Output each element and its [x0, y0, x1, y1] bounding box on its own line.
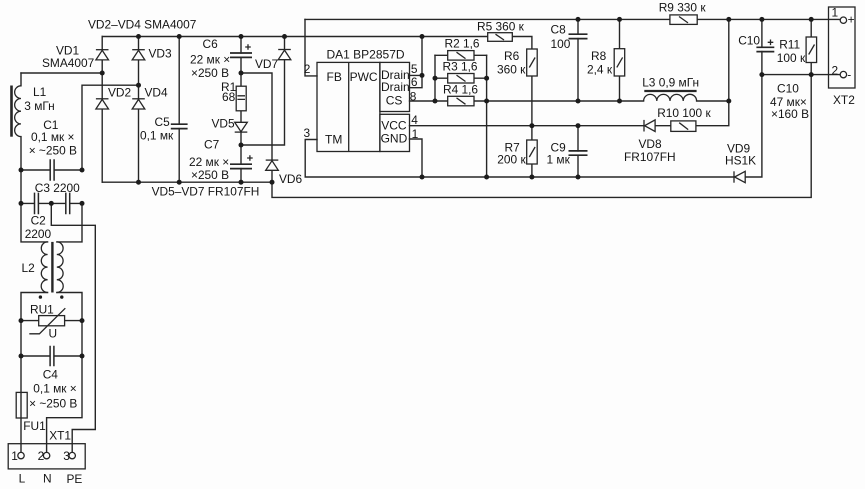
fuse FU1 — [16, 392, 27, 418]
resistor R11 (100k) — [806, 37, 817, 63]
svg-text:22 мк ×: 22 мк × — [190, 53, 230, 67]
svg-text:VD5–VD7 FR107FH: VD5–VD7 FR107FH — [152, 184, 260, 198]
svg-text:FU1: FU1 — [23, 419, 46, 433]
wire VD6 column from C6/R1 node — [241, 73, 272, 182]
wire PE path from C3/C2 midpoint to XT1 pin 3 — [51, 203, 95, 452]
inductor L3 (0.9 mH) with core — [644, 91, 697, 101]
node L2 phase dots — [39, 295, 42, 298]
resistor R4 (1.6) — [448, 96, 474, 106]
svg-text:FR107FH: FR107FH — [624, 150, 676, 164]
svg-text:C7: C7 — [204, 138, 220, 152]
svg-text:L1: L1 — [33, 85, 47, 99]
svg-text:N: N — [43, 472, 52, 486]
node VCC line junctions — [529, 123, 534, 128]
wire AC input to left leg from L1 top — [21, 72, 102, 74]
svg-text:SMA4007: SMA4007 — [42, 56, 95, 70]
svg-text:3 мГн: 3 мГн — [24, 99, 54, 113]
svg-text:× ~250 В: × ~250 В — [29, 144, 77, 158]
wire R7 leads — [531, 126, 533, 177]
svg-text:R8: R8 — [591, 49, 607, 63]
svg-text:GND: GND — [381, 131, 408, 145]
wire C7 leads — [240, 145, 242, 182]
svg-text:R10 100 к: R10 100 к — [657, 106, 711, 120]
resistor R7 (200k) — [527, 140, 538, 164]
svg-text:1: 1 — [11, 449, 18, 463]
svg-text:C5: C5 — [155, 115, 171, 129]
wire left column C1 to C3 line — [20, 170, 22, 203]
wire R11 column — [810, 19, 812, 74]
capacitor C4 (0.1u) plates — [50, 346, 54, 366]
wire C4 line — [21, 355, 82, 357]
svg-text:4: 4 — [411, 113, 418, 127]
svg-text:CS: CS — [386, 94, 403, 108]
svg-text:×250 В: ×250 В — [191, 66, 229, 80]
node ground line junctions — [420, 175, 425, 180]
svg-text:DA1 BP2857D: DA1 BP2857D — [327, 47, 405, 61]
diode VD1 — [96, 50, 109, 60]
svg-text:VD7: VD7 — [255, 57, 279, 71]
svg-text:2: 2 — [304, 62, 311, 76]
wire XT2 minus rail — [762, 74, 840, 76]
wire rail A right of R9 to XT2 pin 1 — [697, 18, 840, 20]
wire R1 leads — [240, 73, 242, 122]
connector XT1 pin circles — [18, 452, 76, 458]
diode VD5 (points down) — [235, 122, 248, 132]
wire C10 column — [761, 19, 763, 74]
svg-text:FB: FB — [327, 70, 342, 84]
connector XT2 pin circles — [840, 17, 846, 78]
svg-text:C8: C8 — [551, 23, 567, 37]
connector XT2 box — [829, 7, 856, 88]
capacitor C6 (22u electrolytic) plates and plus — [230, 44, 252, 57]
svg-text:L3 0,9 мГн: L3 0,9 мГн — [642, 75, 699, 89]
svg-text:L2: L2 — [22, 261, 36, 275]
svg-text:VD5: VD5 — [212, 117, 236, 131]
svg-text:VD2: VD2 — [108, 86, 132, 100]
svg-text:+: + — [848, 13, 855, 27]
wire C3 line segments — [21, 202, 82, 204]
svg-text:VD3: VD3 — [149, 47, 173, 61]
node VD5/C7/VD7 junction — [239, 143, 244, 148]
diode VD2 — [96, 99, 109, 109]
IC DA1 BP2857D body — [317, 62, 410, 151]
svg-text:2,4 к: 2,4 к — [587, 63, 613, 77]
wire C1 line right — [55, 169, 82, 171]
wire bridge left leg — [101, 37, 103, 183]
svg-text:0,1 мк: 0,1 мк — [140, 129, 174, 143]
svg-text:R3 1,6: R3 1,6 — [443, 60, 478, 74]
node C3/C2 line junctions — [19, 201, 24, 206]
svg-text:R6: R6 — [504, 49, 520, 63]
diode VD8 (points left) — [644, 120, 655, 132]
wire L3 riser from rail A — [728, 19, 730, 101]
resistor R2 (1.6) — [448, 51, 474, 61]
diode VD9 (points left) — [734, 171, 745, 182]
diode VD3 — [132, 50, 145, 60]
svg-text:PWC: PWC — [350, 70, 378, 84]
wire L1 bottom lead — [20, 137, 22, 170]
svg-text:C2: C2 — [31, 214, 47, 228]
svg-text:C3 2200: C3 2200 — [35, 181, 80, 195]
svg-text:2: 2 — [832, 64, 839, 78]
wire R2/R3/R4 left vertical — [434, 55, 436, 101]
node AC inputs on bridge legs — [100, 71, 105, 76]
svg-text:C4: C4 — [43, 368, 59, 382]
node CS line junctions — [433, 99, 438, 104]
svg-text:R2 1,6: R2 1,6 — [445, 36, 480, 50]
wire R8 column — [619, 19, 621, 101]
wire bridge right leg — [138, 37, 140, 183]
wire R3 row — [435, 77, 487, 79]
capacitor C5 (0.1u) plates — [171, 124, 188, 128]
wire R2/R3/R4 right vertical down to ground line — [486, 55, 488, 177]
svg-text:HS1K: HS1K — [725, 153, 756, 167]
svg-text:0,1 мк ×: 0,1 мк × — [31, 130, 75, 144]
diode VD7 (points up) — [278, 50, 291, 60]
svg-text:C10: C10 — [738, 34, 760, 48]
svg-text:1: 1 — [412, 127, 419, 141]
wire IC pin 1 GND stub — [410, 139, 423, 177]
svg-text:L: L — [19, 472, 26, 486]
node drain pins junction — [420, 73, 425, 78]
node rail B junctions — [136, 34, 141, 39]
resistor R10 (100k) — [671, 121, 696, 131]
node XT2 minus rail junctions — [759, 72, 764, 77]
svg-text:XT1: XT1 — [49, 429, 71, 443]
wire IC pin 8 CS line to L3 — [410, 100, 644, 102]
svg-text:2: 2 — [38, 449, 45, 463]
svg-text:22 мк ×: 22 мк × — [189, 155, 229, 169]
svg-text:0,1 мк ×: 0,1 мк × — [33, 382, 77, 396]
svg-text:RU1: RU1 — [30, 303, 54, 317]
svg-text:1 мк: 1 мк — [547, 153, 571, 167]
capacitor C2 (2200) plates — [66, 193, 70, 215]
diode VD4 — [132, 99, 145, 109]
capacitor C10 (47u electrolytic) plates and plus — [756, 40, 774, 52]
svg-text:XT2: XT2 — [833, 93, 855, 107]
svg-text:200 к: 200 к — [497, 153, 526, 167]
wire R6 bottom to VCC line — [531, 76, 533, 126]
resistor R1 (68) with power marks — [236, 86, 246, 111]
svg-text:-: - — [847, 68, 851, 82]
resistor R3 (1.6) — [448, 74, 474, 84]
wire return line from VD6 node to XT2 minus rail — [272, 75, 811, 198]
wire L2 right winding bottom to XT1 pin 2 — [47, 293, 82, 453]
wire VD5 to C7 node — [240, 132, 242, 145]
wire AC input to right leg — [82, 85, 139, 170]
varistor RU1 — [29, 308, 65, 334]
diode VD6 (points up) — [266, 160, 279, 170]
wire IC pin 3 TM to ground line, ground line to VD9, riser to minus rail — [305, 75, 762, 177]
svg-text:VD2–VD4 SMA4007: VD2–VD4 SMA4007 — [88, 17, 197, 31]
wire left column C3 line to L2 — [21, 203, 48, 242]
svg-text:VCC: VCC — [381, 118, 407, 132]
wire L2 left winding bottom to XT1 pin 1 through FU1 — [21, 293, 48, 453]
svg-text:3: 3 — [63, 449, 70, 463]
svg-text:PE: PE — [67, 472, 83, 486]
wire bottom-left rail (bridge minus) — [102, 181, 272, 183]
svg-text:1: 1 — [832, 6, 839, 20]
wire drain riser and pin 5/6 stubs — [410, 37, 423, 88]
resistor R5 (360k) — [488, 33, 513, 42]
svg-text:R9 330 к: R9 330 к — [659, 1, 707, 15]
wire right column C3 line to L2 — [57, 203, 82, 242]
node R3 row junctions — [433, 76, 438, 81]
wire RU1 line — [21, 320, 82, 322]
svg-text:×160 В: ×160 В — [771, 107, 809, 121]
svg-text:68: 68 — [222, 90, 236, 104]
svg-text:TM: TM — [325, 133, 342, 147]
node C4 line junctions — [19, 354, 24, 359]
wire R2 row — [435, 54, 487, 56]
wire rail A (FB/output top rail) left of R9 — [305, 18, 670, 20]
svg-text:VD6: VD6 — [279, 172, 303, 186]
capacitor C9 (1u) plates — [569, 151, 588, 155]
resistor R6 (360k) — [527, 49, 538, 76]
capacitor C1 (0.1u X-cap) plates — [50, 159, 54, 181]
wire IC pin 4 VCC line to VD8, R10, riser to L3 node — [410, 101, 729, 126]
node bottom-left rail junctions — [136, 180, 141, 185]
svg-text:8: 8 — [410, 89, 417, 103]
wire C1 line left — [21, 169, 50, 171]
svg-text:2200: 2200 — [25, 227, 52, 241]
wire FB riser from rail A down to pin 2 — [305, 19, 317, 76]
svg-text:R4 1,6: R4 1,6 — [443, 83, 478, 97]
inductor L2 common-mode choke windings and core — [41, 242, 63, 293]
node C1 line junctions — [19, 168, 24, 173]
svg-text:3: 3 — [304, 126, 311, 140]
resistor R9 (330k) — [670, 15, 697, 25]
wire C6 column — [240, 37, 242, 74]
resistor R8 (2.4k) — [614, 49, 625, 76]
svg-text:R11: R11 — [779, 37, 800, 51]
svg-text:5: 5 — [411, 62, 418, 76]
wire C8 column — [577, 19, 579, 101]
inductor L1 (3 mH) with core — [10, 86, 21, 137]
svg-text:Drain: Drain — [381, 80, 410, 94]
svg-text:6: 6 — [411, 75, 418, 89]
node C6/R1/VD6 junction — [239, 71, 244, 76]
capacitor C7 (22u electrolytic) plates and plus — [230, 155, 253, 168]
node RU1 line junctions — [19, 318, 24, 323]
connector XT1 box — [8, 444, 85, 469]
svg-text:360 к: 360 к — [497, 63, 526, 77]
wire rail B (rectified + rail) left of R5 — [102, 36, 488, 38]
wire rail B right of R5 to R6 corner — [512, 37, 532, 50]
svg-text:C6: C6 — [203, 37, 219, 51]
svg-text:100 к: 100 к — [777, 51, 806, 65]
wire C9 column — [577, 126, 579, 177]
svg-text:C10: C10 — [777, 82, 799, 96]
svg-text:R5 360 к: R5 360 к — [477, 19, 525, 33]
wire L3 right end to riser node — [697, 100, 729, 102]
svg-text:VD4: VD4 — [145, 86, 169, 100]
svg-text:100: 100 — [551, 37, 571, 51]
wire L1 top lead — [20, 73, 22, 86]
svg-text:× ~250 В: × ~250 В — [29, 397, 77, 411]
wire C5 column — [178, 37, 180, 183]
capacitor C3 (2200) plates — [35, 193, 39, 215]
svg-text:×250 В: ×250 В — [191, 168, 229, 182]
svg-text:U: U — [49, 327, 58, 341]
capacitor C8 (100) plates — [569, 34, 588, 38]
wire VD7 column and link to VD5/C7 node — [241, 37, 285, 146]
node rail A junctions — [576, 17, 581, 22]
